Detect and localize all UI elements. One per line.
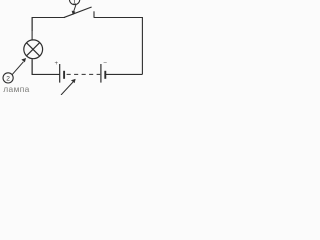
svg-text:2: 2 [6, 76, 10, 83]
svg-text:1: 1 [73, 0, 77, 5]
arrow 3 pointing to battery [61, 79, 75, 95]
svg-text:+: + [55, 61, 59, 67]
battery short plate 2 [104, 71, 106, 79]
wire top-left horizontal [32, 18, 65, 32]
switch S1 right terminal tick [93, 11, 95, 17]
wire lamp bottom vertical [31, 59, 33, 75]
arrow 1 pointing to switch [72, 5, 76, 15]
wire bottom-right horizontal [105, 73, 142, 75]
callout circle 2 [3, 73, 13, 83]
dashed wire between cells [67, 73, 101, 75]
svg-text:лампа: лампа [3, 84, 30, 94]
svg-text:−: − [103, 60, 107, 67]
wire bottom-left horizontal [32, 60, 59, 74]
callout circle 1 (cropped at top) [69, 0, 79, 5]
arrow 2 pointing to lamp [12, 58, 26, 74]
battery long plate 2 [100, 64, 102, 83]
wire right vertical [94, 18, 142, 75]
battery long plate 1 [59, 64, 61, 83]
battery short plate 1 [63, 71, 65, 79]
wire left vertical to lamp [31, 18, 33, 41]
switch S1 blade (open) [64, 7, 92, 18]
lamp HL1 (circle with X) [24, 40, 43, 59]
